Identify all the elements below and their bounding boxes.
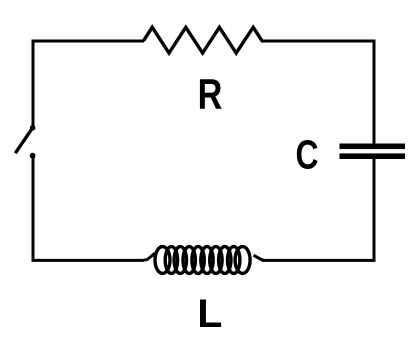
inductor L lead right (diagonal) bbox=[254, 255, 265, 260]
capacitor C bottom plate bbox=[340, 153, 406, 159]
svg-text:R: R bbox=[198, 71, 223, 119]
wire top-left (switch top contact up to top-left corner, across to resistor) bbox=[33, 41, 144, 128]
svg-text:L: L bbox=[197, 290, 222, 335]
wire bottom-left (inductor to bottom-left corner, up to switch bottom contact) bbox=[33, 156, 144, 260]
inductor L lead left (diagonal) bbox=[144, 253, 155, 260]
resistor R bbox=[144, 27, 263, 53]
switch S1 blade bbox=[15, 128, 32, 153]
inductor L coil bbox=[155, 247, 250, 274]
wire right-bottom (capacitor down to bottom-right corner, across to inductor) bbox=[262, 158, 374, 260]
svg-text:C: C bbox=[296, 132, 319, 178]
switch S1 top contact dot bbox=[30, 125, 36, 131]
switch S1 bottom contact dot bbox=[30, 153, 36, 159]
capacitor C top plate bbox=[340, 144, 406, 150]
wire top-right (resistor to top-right corner, down to capacitor) bbox=[261, 41, 374, 144]
